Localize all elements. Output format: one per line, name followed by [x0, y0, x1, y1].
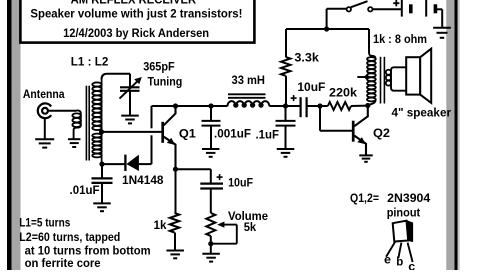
node L2 tap — [99, 129, 104, 134]
wire rail to C .1uF — [285, 106, 287, 121]
wire L2 top to tuning cap — [102, 74, 131, 80]
wire V+ to output transformer primary — [368, 29, 370, 53]
svg-text:L2=60 turns, tapped: L2=60 turns, tapped — [19, 230, 120, 244]
svg-text:3.3k: 3.3k — [294, 50, 319, 64]
svg-text:e: e — [384, 252, 391, 266]
xfmr T1 secondary coil — [386, 70, 391, 86]
transistor Q1 collector lead — [164, 106, 176, 125]
svg-text:10uF: 10uF — [228, 176, 253, 190]
svg-text:4" speaker: 4" speaker — [392, 105, 452, 119]
svg-text:33 mH: 33 mH — [232, 73, 266, 87]
node primary tap — [365, 75, 369, 79]
ground tuning cap — [121, 116, 139, 124]
transistor Q2 emitter arrow — [357, 137, 366, 144]
plus sign 10uF(1) — [291, 95, 297, 101]
capacitor C 10uF(2) bottom plate — [200, 187, 223, 189]
node Q1 emitter junction — [173, 167, 178, 172]
wire 33mH to 10uF cap — [269, 105, 299, 107]
wire switch to battery — [373, 8, 402, 10]
wire emitter to C 10uF — [176, 168, 211, 170]
resistor R 220k — [328, 102, 351, 110]
wire to C 10uF top plate — [210, 169, 212, 183]
svg-text:.001uF: .001uF — [214, 127, 251, 141]
node 10uF/220k/Q2 base — [317, 103, 322, 108]
svg-text:pinout: pinout — [387, 205, 421, 219]
capacitor C-tune bottom plate — [120, 90, 140, 92]
svg-text:AM REFLEX RECEIVER: AM REFLEX RECEIVER — [71, 0, 197, 6]
ground 1k — [166, 251, 184, 259]
svg-text:on ferrite core: on ferrite core — [25, 256, 101, 270]
title box — [20, 0, 254, 43]
capacitor C 10uF(2) top plate — [200, 182, 223, 184]
TO-92 package body — [393, 221, 409, 242]
node Q1 collector on rail — [173, 103, 178, 108]
xfmr T1 core line left — [380, 57, 382, 104]
plus sign 10uF(2) — [217, 174, 223, 180]
xfmr T1 primary top jog — [369, 53, 376, 60]
resistor R 3.3k — [281, 57, 290, 76]
speaker driver — [406, 57, 420, 94]
inductor 33mH core line bottom — [228, 97, 266, 99]
svg-text:L1=5 turns: L1=5 turns — [19, 215, 70, 229]
wire rail to C .001uF — [210, 106, 212, 121]
capacitor 10uF(1) left plate — [300, 97, 302, 117]
ground L1 — [68, 139, 81, 147]
coil L1 lead top — [77, 110, 81, 125]
wire .001uF to ground — [210, 126, 212, 149]
wire V+ rail to R 3.3k — [285, 29, 287, 57]
coil L1 — [72, 113, 80, 127]
core line L1:L2 left — [85, 86, 87, 161]
capacitor C-tune top plate — [120, 86, 140, 88]
wire riser lower segment — [151, 135, 153, 164]
transistor Q2 collector lead — [354, 106, 368, 127]
capacitor .1uF bottom plate — [276, 125, 296, 127]
node switch branch — [324, 26, 329, 31]
wire battery to ground — [437, 8, 443, 10]
wire L2 tap to Q1 base — [102, 131, 162, 133]
wire 10uF to volume pot — [210, 189, 212, 214]
wire L2 bottom to diode — [102, 163, 125, 165]
inductor L 33mH humps — [227, 101, 269, 106]
node L2 bottom junction — [99, 162, 104, 167]
capacitor .01uF bottom plate — [92, 182, 113, 184]
xfmr T1 primary coil — [367, 57, 376, 101]
svg-text:L1 : L2: L1 : L2 — [71, 55, 109, 69]
capacitor .001uF top plate — [202, 120, 221, 122]
wire antenna shield to ground — [44, 118, 46, 139]
wire 10uF to 220k node — [307, 105, 320, 107]
wire emitter node to R 1k — [175, 169, 177, 213]
wire battery ground drop — [441, 9, 443, 28]
wire rail Q1 to 33mH — [176, 105, 228, 107]
svg-text:Q1,2=: Q1,2= — [350, 191, 379, 205]
svg-text:1k : 8 ohm: 1k : 8 ohm — [373, 32, 427, 46]
wire 3.3k to rail — [285, 76, 287, 106]
wire .01uF to ground — [101, 183, 103, 204]
TO-92 leg e — [386, 242, 395, 257]
tuning cap arrow — [120, 81, 138, 99]
ground .1uF — [277, 149, 295, 157]
svg-text:365pF: 365pF — [143, 60, 175, 74]
svg-text:1N4148: 1N4148 — [122, 173, 164, 187]
svg-text:2N3904: 2N3904 — [387, 191, 430, 205]
ground .001uF — [202, 149, 220, 157]
wire L2 bottom to C .01uF — [101, 164, 103, 178]
pot wiper arrow — [211, 225, 237, 244]
switch S1 lever — [351, 1, 368, 7]
ground battery — [433, 28, 451, 38]
wire .1uF to ground — [285, 126, 287, 149]
node 3.3k/.1uF on rail — [283, 103, 288, 108]
capacitor .01uF top plate — [92, 177, 113, 179]
svg-text:Q2: Q2 — [373, 126, 390, 140]
coil L2 lower section — [92, 134, 101, 158]
svg-text:5k: 5k — [244, 220, 257, 234]
svg-text:c: c — [408, 259, 415, 270]
inductor 33mH loops — [234, 103, 263, 107]
coil L1 lead bottom — [74, 125, 81, 139]
battery plus sign — [393, 0, 399, 6]
svg-text:.1uF: .1uF — [256, 128, 280, 142]
diode D1 1N4148 — [126, 155, 138, 171]
capacitor .1uF top plate — [276, 120, 296, 122]
xfmr T1 secondary spine and leads — [391, 67, 406, 90]
svg-text:220k: 220k — [329, 85, 357, 99]
svg-text:Speaker volume with just 2 tra: Speaker volume with just 2 transistors! — [30, 7, 242, 21]
wire pot to bottom node — [210, 236, 212, 244]
xfmr T1 primary tap stub — [357, 76, 366, 78]
speaker cone — [420, 49, 431, 103]
wire node to 220k — [320, 105, 328, 107]
transistor Q1 emitter arrow — [167, 138, 175, 145]
TO-92 package side face — [407, 221, 413, 242]
TO-92 leg c — [408, 243, 413, 262]
wire tuning cap to ground — [129, 91, 131, 116]
transistor Q2 base bar — [352, 121, 355, 142]
svg-text:Tuning: Tuning — [148, 75, 183, 89]
coil L2 spine — [101, 78, 103, 164]
svg-text:10uF: 10uF — [297, 80, 325, 94]
transistor Q1 base bar — [161, 122, 164, 143]
antenna jack — [38, 103, 51, 118]
capacitor .001uF bottom plate — [202, 125, 221, 127]
page border: right gray strip — [446, 0, 454, 270]
node pot bottom — [208, 241, 213, 246]
wire node down to Q2 base — [319, 106, 321, 131]
wire V+ rail top — [286, 28, 369, 30]
wire to switch left contact — [327, 8, 347, 10]
ground pot — [202, 254, 220, 262]
page border: right black bar — [455, 0, 458, 270]
coil L2 upper section — [92, 82, 101, 130]
wire to tuning cap top — [129, 74, 131, 87]
svg-text:12/4/2003 by Rick Andersen: 12/4/2003 by Rick Andersen — [63, 26, 209, 40]
xfmr T1 core line right — [383, 57, 385, 104]
TO-92 leg b — [398, 243, 401, 258]
page border: left black bar — [7, 0, 12, 270]
wire 1k to ground — [174, 233, 176, 251]
switch S1 contact left — [347, 7, 351, 11]
capacitor 10uF(1) right plate — [306, 97, 308, 117]
ground Q2 — [359, 155, 373, 161]
potentiometer R 5k body — [206, 213, 215, 236]
svg-text:1k: 1k — [154, 218, 167, 232]
core line L1:L2 right — [88, 86, 90, 161]
ground .01uF — [93, 203, 111, 211]
svg-text:b: b — [396, 254, 403, 268]
wire to Q2 base — [320, 130, 352, 132]
transistor Q1 emitter lead — [164, 137, 176, 170]
xfmr T1 primary bottom jog — [368, 100, 375, 106]
battery B1 — [402, 0, 436, 17]
page border: right outer gray fade — [458, 0, 460, 270]
node Q2 collector junction — [365, 103, 370, 108]
node .001uF on rail — [208, 103, 213, 108]
page border: left gray strip — [12, 0, 21, 270]
ground antenna — [35, 139, 54, 147]
wire antenna to L1 — [48, 110, 77, 112]
wire 220k to collector node — [351, 105, 368, 107]
wire pot to ground — [210, 244, 212, 254]
svg-text:Antenna: Antenna — [23, 87, 65, 101]
wire riser upper segment — [151, 106, 153, 128]
resistor R 1k — [170, 213, 179, 233]
wire to switch — [326, 9, 328, 29]
svg-text:Q1: Q1 — [179, 126, 196, 140]
wire diode to riser — [139, 163, 152, 165]
diode D1 cathode bar — [124, 155, 126, 171]
transistor Q2 emitter lead — [354, 136, 366, 156]
switch S1 contact right — [368, 7, 372, 11]
wire rail to Q1 collector — [152, 105, 176, 107]
svg-text:.01uF: .01uF — [70, 183, 100, 197]
inductor 33mH core line top — [228, 93, 266, 95]
